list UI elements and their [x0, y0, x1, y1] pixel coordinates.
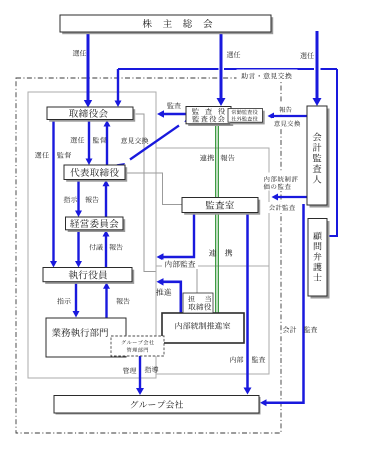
label 会計監査 upper [268, 202, 297, 213]
wire 報告 執行役員 to 経営委員会 up [103, 230, 110, 268]
wire 監査 監査役会 to frame [157, 110, 186, 118]
wire 報告 経営委員会 to 代表取締役 up [103, 180, 110, 217]
label 指示 2 [57, 298, 71, 304]
text グループ会社管理部門 [122, 340, 154, 352]
label 報告 2 [109, 244, 122, 250]
wire 指示 執行役員 to 業務執行部門 [73, 282, 80, 318]
text 株主総会 [143, 19, 213, 28]
text 業務執行部門 [52, 328, 108, 337]
label 選任 right [300, 52, 313, 58]
box 業務執行部門 [46, 318, 126, 357]
text 会計監査人 [313, 132, 322, 183]
label 報告 会計監査人 [276, 104, 296, 115]
label 指示 報告 1 [64, 196, 78, 202]
frame R3 internal-control block [156, 266, 269, 374]
wire 選任 株主総会 to 会計監査人 [313, 31, 322, 106]
wire 意見交換 diagonal [117, 115, 193, 171]
wire 選任監督 取締役会 to 代表取締役 [86, 120, 93, 166]
label 報告 監査役会 [221, 154, 235, 161]
box 監査役会 [186, 107, 233, 127]
label 選任 監督 lower [35, 152, 71, 158]
label 会計 監査 line [283, 326, 297, 332]
wire branch horizontal [118, 68, 337, 70]
text 顧問弁護士 [313, 232, 321, 281]
box 取締役会 [47, 107, 135, 122]
text 取締役会 [69, 109, 108, 118]
wire 報告 会計監査人 to 監査役会 [268, 113, 308, 120]
wire 管理指導 to グループ会社 [136, 356, 144, 395]
wire 内部統制評価の監査 [272, 194, 308, 201]
text 担当取締役 [188, 296, 211, 311]
text 常勤監査役 社外監査役 [231, 110, 257, 121]
label 付議 [89, 244, 103, 250]
wire 監査室 to 担当取締役 [196, 266, 198, 293]
text 監査室 [206, 201, 234, 209]
box 顧問弁護士 [308, 219, 330, 299]
box 経営委員会 [66, 217, 126, 232]
frame R1 management block [28, 92, 156, 378]
label 報告 1 [85, 196, 98, 202]
box グループ会社 [54, 396, 261, 415]
label 意見交換 diagonal [121, 137, 149, 143]
label 連携 [200, 154, 214, 161]
wire 会計監査 to グループ会社 [260, 204, 304, 406]
box 株主総会 [60, 15, 273, 34]
label 会計 監査 line2 [304, 326, 317, 332]
green link 監査役会 to 内部統制推進室 [216, 124, 219, 313]
wire 代表取締役 to 取締役会 up [104, 120, 111, 165]
box 代表取締役 [64, 165, 127, 182]
label 助言・意見交換 [237, 70, 298, 83]
label 内部監査 [162, 260, 198, 270]
wire 代表取締役 to 監査室 [125, 173, 182, 205]
box 会計監査人 [307, 106, 330, 208]
wire 推進 to frame [157, 278, 181, 313]
label 内部 監査 line2 [252, 356, 265, 362]
wire 付議 経営委員会 to 執行役員 [75, 230, 82, 268]
frame R2 audit-office block [156, 148, 269, 266]
wire branch to 取締役会 [115, 69, 122, 107]
box 常勤監査役 社外監査役 [228, 109, 265, 125]
label 内部統制評価の監査 [262, 173, 301, 191]
wire 内部監査 監査室 to frame [157, 212, 195, 261]
label 報告 3 [116, 298, 129, 304]
label 選任 left [73, 50, 86, 56]
wire 選任 株主総会 to 取締役会 [84, 31, 92, 108]
label 連 lower [209, 249, 216, 256]
wire 選任監督 取締役会 to 執行役員 [50, 120, 57, 268]
text 内部統制推進室 [176, 322, 231, 329]
wire 選任 株主総会 to 監査役会 [217, 31, 226, 106]
label 携 lower [225, 249, 232, 256]
label 意見交換 会計監査人 [272, 118, 302, 129]
wire 取締役会 L-path to frame edge [136, 114, 156, 272]
text 監査役会 [192, 108, 225, 122]
label 選任 監督 upper [70, 137, 106, 143]
wire 内部監査 監査室 to グループ会社 [244, 212, 252, 395]
label 推進 [156, 288, 171, 295]
text 代表取締役 [70, 168, 118, 177]
text 執行役員 [69, 270, 107, 279]
wire 報告 業務執行部門 to 執行役員 up [103, 282, 110, 318]
wire to 顧問弁護士 [329, 69, 338, 236]
text グループ会社 [131, 400, 183, 408]
label 指導 [145, 366, 159, 372]
box 内部統制推進室 [162, 313, 244, 343]
label 選任 mid [227, 51, 240, 57]
box 担当取締役 [183, 293, 213, 313]
box 監査室 [182, 198, 260, 215]
label 管理 [123, 367, 137, 373]
company dash-dot border [16, 78, 281, 433]
label 内部 監査 line [230, 356, 243, 362]
wire 指示 代表取締役 to 経営委員会 [75, 180, 82, 218]
box グループ会社管理部門 [111, 336, 164, 356]
box 執行役員 [43, 268, 134, 284]
label 監査 to 取締役会 [167, 102, 180, 108]
text 経営委員会 [70, 219, 118, 228]
